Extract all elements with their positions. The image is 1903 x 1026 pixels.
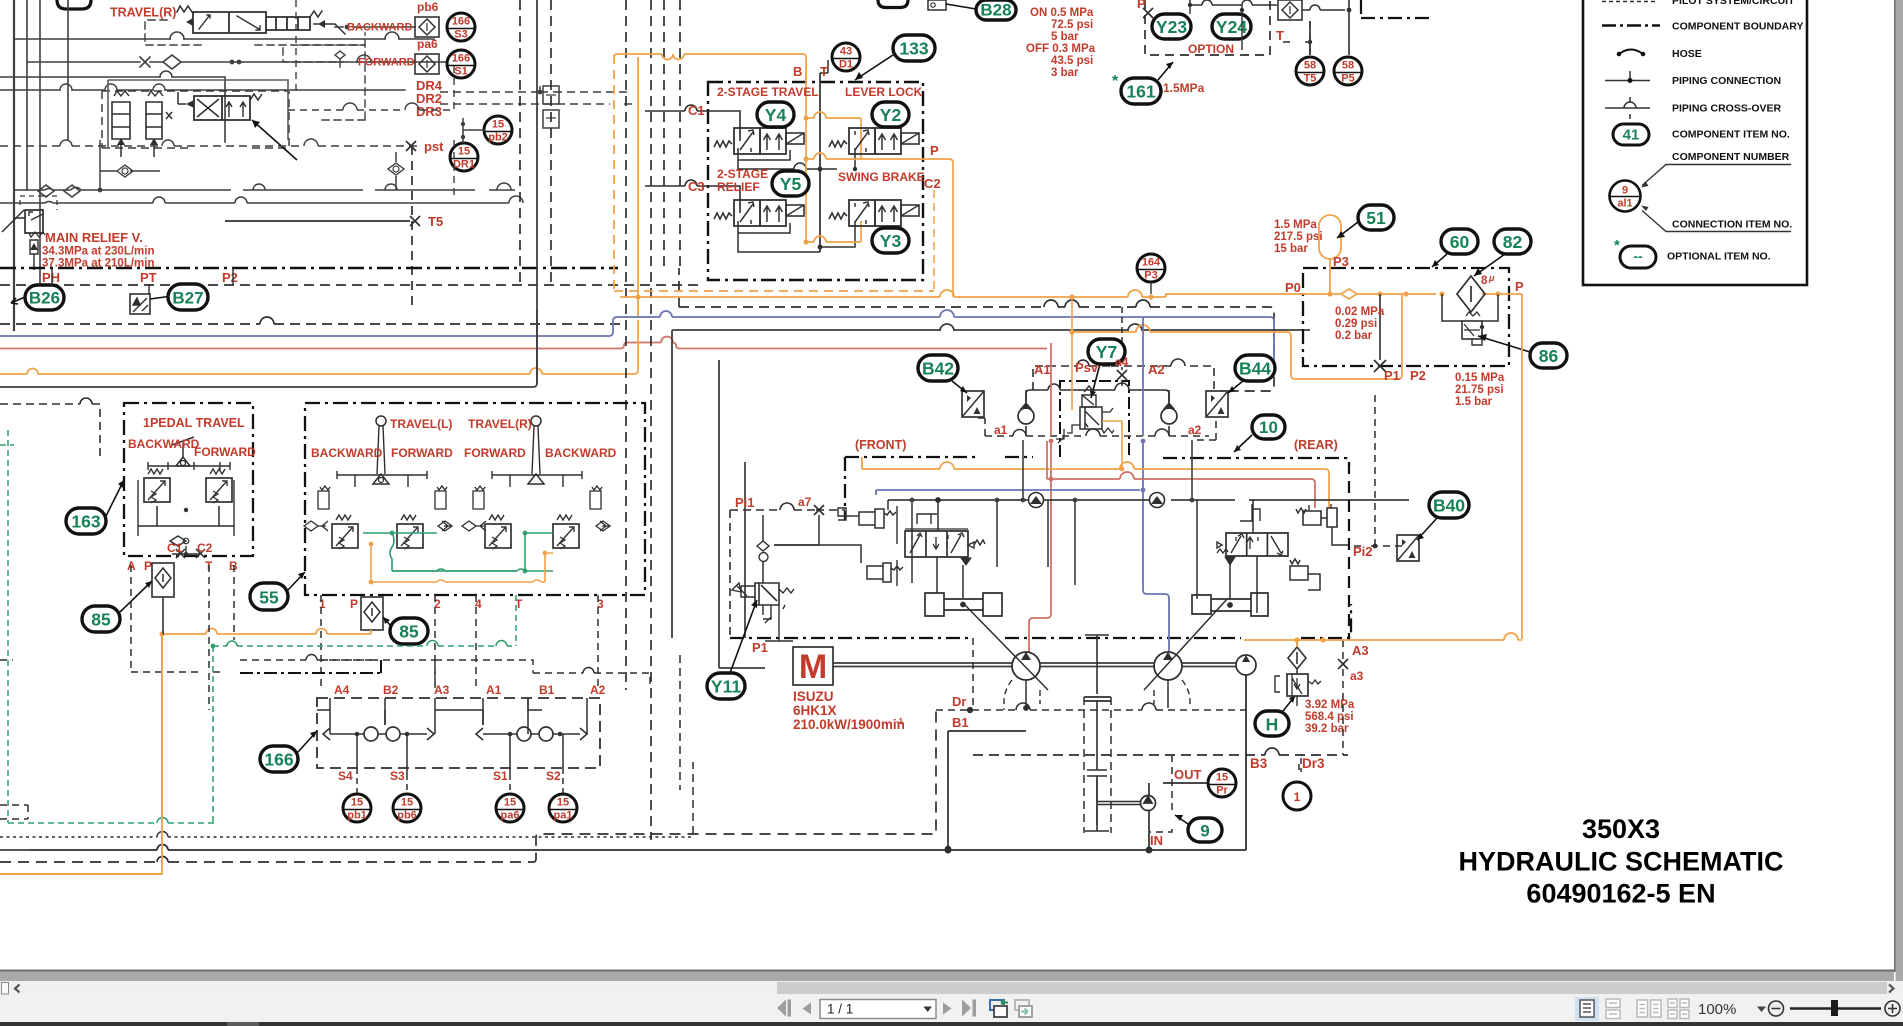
aux pump circle [1236,655,1256,675]
svg-text:P: P [930,143,939,158]
pst dashed line [0,145,420,147]
svg-text:S1: S1 [493,769,508,783]
svg-text:58: 58 [1304,60,1316,72]
Pi2 heavy dashed vertical [1348,462,1350,640]
svg-text:86: 86 [1539,346,1559,366]
T drain vertical [820,60,828,73]
svg-text:OUT: OUT [1174,767,1202,782]
joystick R [531,416,541,426]
svg-text:133: 133 [899,39,928,59]
svg-text:DR1: DR1 [453,159,475,171]
svg-text:Y7: Y7 [1096,342,1117,362]
svg-text:8: 8 [1481,275,1488,287]
svg-text:C3: C3 [688,179,705,194]
svg-text:S3: S3 [390,769,405,783]
filter squares and circles S3/S1 [415,13,512,171]
filter 8u diamond [1457,276,1485,312]
pump case drain dashed [1004,680,1190,710]
front regulator assembly [774,498,1002,616]
orange dashed vertical and elbow [613,55,615,290]
svg-text:FORWARD: FORWARD [464,446,526,460]
blue vertical rear [1143,317,1169,652]
svg-text:LEVER LOCK: LEVER LOCK [845,85,923,99]
svg-text:1.5 bar: 1.5 bar [1455,396,1493,408]
dashed drain lines right [288,60,454,200]
svg-text:210.0kW/1900min: 210.0kW/1900min [793,717,905,732]
svg-text:3.92 MPa: 3.92 MPa [1305,699,1355,711]
svg-text:-1: -1 [896,717,904,726]
svg-text:D1: D1 [839,59,853,71]
svg-text:CONNECTION ITEM NO.: CONNECTION ITEM NO. [1672,219,1792,231]
svg-text:COMPONENT NUMBER: COMPONENT NUMBER [1672,151,1790,163]
svg-text:0.15 MPa: 0.15 MPa [1455,372,1505,384]
svg-text:a3: a3 [1350,669,1364,683]
svg-text:ON 0.5 MPa: ON 0.5 MPa [1030,7,1094,19]
green dashed long y646 [213,645,512,647]
svg-text:pb1: pb1 [347,810,367,822]
svg-text:FORWARD: FORWARD [391,446,453,460]
green/orange wires inside travel box [0,430,680,874]
svg-text:P2: P2 [222,270,238,285]
y200 line [0,202,523,204]
svg-text:166: 166 [264,750,293,770]
svg-text:15 bar: 15 bar [1274,243,1308,255]
orange long right vertical [1521,294,1523,639]
svg-text:P0: P0 [1285,280,1301,295]
OPTION box dashed [1145,0,1270,55]
svg-text:P: P [350,597,358,611]
svg-text:1: 1 [1294,790,1301,804]
relief small under filter [1442,294,1498,321]
svg-text:PT: PT [140,270,157,285]
wire horizontal y84 secondary [0,89,405,91]
below spool [961,558,971,565]
partial oval top-left [57,0,91,9]
B44 symbol + oval [1206,391,1228,417]
svg-text:15: 15 [1216,772,1228,784]
suction/return block bottom [30,675,1246,853]
right prv [206,469,232,503]
wires above option [1190,0,1272,5]
svg-text:a2: a2 [1188,423,1202,437]
svg-text:H: H [1266,715,1279,735]
salmon line [0,343,1047,349]
svg-text:P5: P5 [1341,73,1354,85]
svg-text:PIPING CONNECTION: PIPING CONNECTION [1672,75,1781,87]
svg-text:A2: A2 [590,683,606,697]
svg-text:2-STAGE TRAVEL: 2-STAGE TRAVEL [717,85,819,99]
orange inside travel box [371,544,545,582]
green dashed box bottom-left [8,430,214,823]
valves in 133 block [714,128,804,154]
svg-text:164: 164 [1142,257,1161,269]
svg-text:Y2: Y2 [880,105,902,125]
B28 oval [976,0,1016,20]
svg-text:55: 55 [259,588,279,608]
wire vertical left bus 1 [13,0,15,330]
svg-text:Dr3: Dr3 [1302,756,1325,771]
svg-text:B28: B28 [980,1,1011,20]
orange to Psv [1072,297,1122,469]
svg-text:T: T [820,64,828,79]
svg-text:HYDRAULIC SCHEMATIC: HYDRAULIC SCHEMATIC [1459,847,1784,877]
left small stubs at bottom left corner [0,805,28,819]
svg-text:58: 58 [1342,60,1354,72]
left mesh lower [14,189,515,191]
svg-text:TRAVEL(R): TRAVEL(R) [110,6,176,20]
svg-text:568.4 psi: 568.4 psi [1305,711,1354,723]
svg-text:60: 60 [1450,232,1470,252]
svg-text:pst: pst [424,139,444,154]
svg-text:PH: PH [42,270,60,285]
component boundary dash-dot y268 [0,267,618,269]
svg-text:C2: C2 [197,541,213,555]
164/P3 circle [1137,254,1165,282]
Dr/B1 dashed drain [936,638,1246,852]
left edge wire entries mid page [0,398,100,459]
A1/A2 header box dashed [1033,366,1214,390]
B42 symbol + oval [962,391,984,417]
svg-text:B27: B27 [172,289,203,308]
svg-text:163: 163 [71,512,100,532]
pilot valve stub [335,51,345,67]
blue pilot line [0,317,1274,361]
svg-text:166: 166 [452,53,470,65]
dashed bus y285 [0,284,700,286]
orange P2 loop below [1072,294,1402,379]
svg-text:PIPING CROSS-OVER: PIPING CROSS-OVER [1672,103,1782,115]
horizontal scrollbar row [0,981,1903,995]
pedal [172,437,194,457]
Y7 oval + Psv valve [1088,339,1125,364]
gray y500 line with checks [888,499,1409,501]
svg-text:0.02 MPa: 0.02 MPa [1335,306,1385,318]
svg-text:100%: 100% [1698,1001,1736,1018]
svg-text:a7: a7 [798,495,812,509]
T5 line [225,220,418,222]
svg-text:OPTION: OPTION [1188,42,1234,56]
dashed line y862 [0,861,533,863]
svg-text:BACKWARD: BACKWARD [347,22,412,34]
svg-text:P: P [144,559,152,573]
133 oval + arrow [893,35,935,61]
right gray scrollbar strip [1896,0,1903,981]
vertical dashed pst to pb2/DR1 [411,146,413,306]
60 and 82 ovals [1441,229,1478,254]
gearbox vertical assembly [1084,635,1111,833]
wire horizontal y62 [27,61,452,63]
wire junctions y62 [230,60,235,65]
dashed feedback box around spool [145,20,365,45]
svg-text:pb6: pb6 [417,0,439,14]
svg-text:TRAVEL(L): TRAVEL(L) [390,417,452,431]
svg-text:P3: P3 [1144,270,1157,282]
svg-text:T5: T5 [428,214,443,229]
DR4 junction [538,90,543,95]
svg-text:HOSE: HOSE [1672,48,1702,60]
spool 3-pos [905,531,968,557]
svg-text:pb6: pb6 [397,810,417,822]
svg-text:9: 9 [1622,185,1628,197]
small box top [928,0,946,10]
dash-dot corner right of option [1361,0,1433,18]
main relief [25,210,43,233]
orange line y374 [0,320,638,374]
H oval + filter/valve [1255,711,1289,736]
svg-text:166: 166 [452,16,470,28]
page right edge line [1894,0,1896,972]
svg-text:TRAVEL(R): TRAVEL(R) [468,417,532,431]
svg-text:A3: A3 [434,683,450,697]
svg-text:BACKWARD: BACKWARD [545,446,617,460]
1pedal port stubs [131,565,234,710]
svg-text:DR3: DR3 [416,104,442,119]
Psv inner dash-dot box [1060,381,1129,457]
page layout icons [1575,997,1599,1021]
fine dotted line y837 [0,836,693,838]
svg-text:B2: B2 [383,683,399,697]
svg-text:(FRONT): (FRONT) [855,438,906,452]
svg-text:P1: P1 [752,640,768,655]
svg-text:350X3: 350X3 [1582,814,1660,844]
svg-text:43: 43 [840,46,852,58]
svg-text:B1: B1 [952,715,969,730]
orange/salmon mid horizontals [862,457,1329,508]
svg-text:pa6: pa6 [501,810,520,822]
wire to backward port [335,26,415,28]
svg-text:2-STAGE: 2-STAGE [717,167,768,181]
svg-text:43.5 psi: 43.5 psi [1051,55,1093,67]
blue mid horizontal [876,490,1140,495]
legend: component item no. [1613,124,1649,145]
page bottom border [0,970,1895,972]
servo piston rear [1192,593,1268,616]
svg-text:1 / 1: 1 / 1 [827,1002,853,1017]
svg-text:S2: S2 [546,769,561,783]
svg-text:Y4: Y4 [765,105,787,125]
legend: pilot system line [1602,1,1657,3]
svg-text:1.5 MPa: 1.5 MPa [1274,219,1317,231]
svg-text:P1: P1 [1384,368,1400,383]
43/D1 circle [832,43,860,71]
OUT circle 15/Pr [1208,769,1236,797]
shuttle small [170,536,186,546]
dashed line to forward [283,48,415,62]
108 spool [194,96,250,120]
a4 X marker [1117,370,1127,380]
svg-text:217.5 psi: 217.5 psi [1274,231,1323,243]
svg-text:ISUZU: ISUZU [793,689,834,704]
svg-text:a1: a1 [994,423,1008,437]
wire vertical left bus 2 [26,0,28,190]
svg-text:C2: C2 [924,176,941,191]
servo piston front [925,593,1002,616]
Y23 Y24 ovals [1152,14,1191,39]
svg-text:51: 51 [1366,208,1386,228]
svg-text:Dr: Dr [952,694,966,709]
wire horizontal y39 [14,38,434,40]
svg-text:S1: S1 [454,66,467,78]
svg-text:COMPONENT BOUNDARY: COMPONENT BOUNDARY [1672,21,1803,33]
svg-text:B40: B40 [1433,496,1465,516]
A3 orange line [1244,639,1522,641]
filter diamond at top right of option [1278,0,1302,20]
Y11 oval [707,673,745,699]
svg-text:10: 10 [1259,418,1278,437]
svg-text:0.2 bar: 0.2 bar [1335,330,1373,342]
C1/C3 stubs [645,111,708,186]
left prv [144,469,170,503]
svg-text:M: M [799,648,827,686]
svg-text:9: 9 [1200,822,1209,841]
boundary dash-dot box 60 [1303,268,1509,366]
svg-text:*: * [1614,237,1620,254]
joystick L [376,416,386,426]
orange check [1341,289,1357,299]
gray line y383 [0,310,537,387]
two snapshot icons [990,1000,1032,1018]
solid sub box [108,80,288,140]
163 oval + arrow [104,480,124,520]
side check orifice [304,521,328,531]
svg-text:PILOT SYSTEM/CIRCUIT: PILOT SYSTEM/CIRCUIT [1672,0,1795,7]
small valve bodies on bus x551 [543,86,559,104]
B27 valve [130,294,150,314]
svg-text:C1: C1 [167,541,183,555]
svg-text:Y5: Y5 [780,174,802,194]
55 oval + arrow [250,583,288,610]
svg-text:OFF 0.3 MPa: OFF 0.3 MPa [1026,43,1096,55]
svg-text:--: -- [1633,248,1643,264]
svg-text:B26: B26 [29,289,60,308]
svg-text:C1: C1 [688,103,705,118]
svg-text:34.3MPa at 230L/min: 34.3MPa at 230L/min [42,246,155,258]
svg-text:15: 15 [401,797,413,809]
svg-text:BACKWARD: BACKWARD [311,446,383,460]
svg-text:S3: S3 [454,29,467,41]
svg-text:P: P [1515,279,1524,294]
1 circle [1283,782,1311,810]
9 oval [1188,818,1222,842]
svg-text:1.5MPa: 1.5MPa [1163,81,1205,95]
red/salmon vertical front [1029,343,1051,652]
svg-text:15: 15 [557,797,569,809]
port stubs below travel box [321,595,598,690]
lower pilot piston [774,545,861,563]
svg-text:0.29 psi: 0.29 psi [1335,318,1377,330]
svg-text:A1: A1 [486,683,502,697]
svg-text:P3: P3 [1333,254,1349,269]
svg-text:85: 85 [399,622,419,642]
svg-text:A3: A3 [1352,643,1369,658]
svg-text:Pr: Pr [1216,785,1228,797]
svg-text:a4: a4 [1115,355,1129,369]
check diamond on y62 [163,55,181,69]
rear regulator assembly [1192,500,1349,616]
dashed mesh between pilot boxes and 166 [321,660,435,673]
svg-text:6HK1X: 6HK1X [793,703,837,718]
Pi1/a7 region [730,462,845,641]
svg-text:A4: A4 [334,683,350,697]
orange long pilot supply y631 [0,634,371,874]
svg-text:B1: B1 [539,683,555,697]
orange solid from top-left elbow [614,54,806,80]
svg-text:RELIEF: RELIEF [717,180,760,194]
svg-text:Y23: Y23 [1156,17,1187,37]
bracket above spool [917,514,937,524]
orange bottom-left [0,634,162,874]
small valve 2 [146,102,162,139]
svg-text:B3: B3 [1250,756,1268,771]
gray line y331 from x672 [672,330,1310,638]
flow restrictor on y62 [140,57,150,67]
B40 [1397,535,1419,561]
DR2/DR3 dashed horizontals to the right [440,91,630,93]
dashed verticals from top center [519,0,521,285]
svg-text:Y3: Y3 [880,231,902,251]
svg-text:15: 15 [351,797,363,809]
orange main through [1165,293,1498,295]
P1 down line with X [1379,294,1381,360]
dashed verticals PH PT P2 going down [52,268,233,294]
legend: piping connection [1605,80,1650,82]
58/T5 58/P5 circles [1296,57,1324,85]
svg-text:*: * [1112,73,1119,90]
green ovals in 133 block [757,102,794,127]
svg-text:IN: IN [1150,833,1163,848]
check valves a1 a2 [1025,390,1027,436]
dashed pilot bus y307 to a2/B44 [679,307,1274,391]
a1/a2 dashed stubs [985,435,1209,437]
circle-diamond symbols [100,170,160,172]
M engine box [793,647,833,685]
svg-text:21.75 psi: 21.75 psi [1455,384,1504,396]
wire vertical left bus 3 [39,0,41,300]
dashed bus y324 [0,323,620,325]
svg-text:pa6: pa6 [417,37,438,51]
svg-text:B44: B44 [1239,359,1271,379]
svg-text:15: 15 [492,119,504,131]
svg-text:A2: A2 [1148,362,1165,377]
dampers [318,486,330,509]
legend: hose [1619,50,1643,55]
long orange main pilot y297 [620,294,1166,297]
svg-text:pb2: pb2 [488,132,508,144]
filter 85 under P (travel) [361,597,383,630]
svg-text:15: 15 [458,146,470,158]
svg-text:FORWARD: FORWARD [194,445,256,459]
travel(R) spool valve body [193,12,310,33]
top pilot piston [887,500,889,510]
legend: piping cross-over [1605,107,1650,109]
svg-text:B42: B42 [922,359,954,379]
svg-text:15: 15 [504,797,516,809]
svg-text:BACKWARD: BACKWARD [128,437,200,451]
big dashed boundary y755 [973,754,1348,756]
svg-text:5 bar: 5 bar [1051,31,1079,43]
component boundary box [708,82,923,280]
filter 85 under P [152,563,174,597]
dashed box around 108 pilot group [102,91,289,148]
svg-text:1: 1 [319,597,326,611]
svg-text:41: 41 [1623,127,1640,144]
svg-text:Pi1: Pi1 [735,495,755,510]
108 valve group [0,0,638,306]
orange P network [805,75,807,242]
svg-text:μ: μ [1488,273,1495,283]
svg-text:B: B [793,64,802,79]
svg-text:T: T [1276,28,1284,43]
